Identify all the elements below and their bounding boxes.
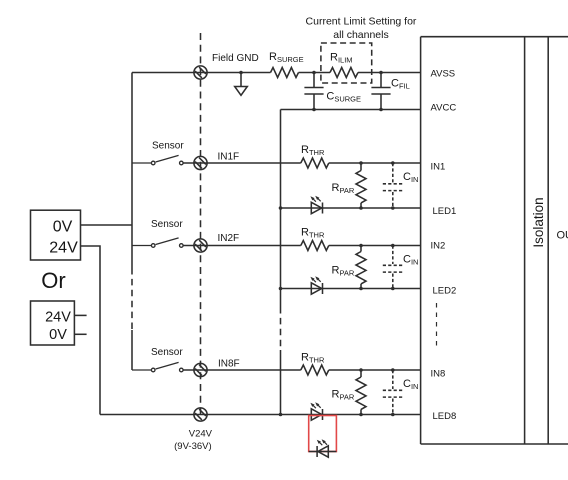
svg-text:Sensor: Sensor <box>151 347 183 358</box>
svg-text:RPAR: RPAR <box>332 182 355 195</box>
svg-text:RTHR: RTHR <box>301 352 325 365</box>
svg-text:LED8: LED8 <box>433 411 457 422</box>
svg-text:Current Limit Setting for: Current Limit Setting for <box>306 16 417 28</box>
svg-text:LED2: LED2 <box>433 285 457 296</box>
svg-text:CIN: CIN <box>403 254 418 267</box>
svg-text:LED1: LED1 <box>433 206 457 217</box>
svg-text:IN2F: IN2F <box>218 233 240 244</box>
svg-text:all channels: all channels <box>333 29 388 41</box>
svg-text:Isolation: Isolation <box>531 197 546 247</box>
svg-text:IN1F: IN1F <box>218 152 240 163</box>
svg-text:0V: 0V <box>53 219 73 236</box>
svg-text:IN1: IN1 <box>431 161 446 172</box>
svg-text:Sensor: Sensor <box>151 219 183 230</box>
svg-text:CSURGE: CSURGE <box>326 91 361 104</box>
svg-text:CIN: CIN <box>403 171 418 184</box>
svg-text:(9V-36V): (9V-36V) <box>174 441 212 452</box>
svg-text:IN2: IN2 <box>431 240 446 251</box>
svg-text:0V: 0V <box>49 327 67 343</box>
svg-text:24V: 24V <box>45 309 71 325</box>
svg-text:IN8F: IN8F <box>218 359 240 370</box>
svg-text:Or: Or <box>41 268 65 293</box>
svg-text:RPAR: RPAR <box>332 389 355 402</box>
svg-text:RTHR: RTHR <box>301 144 325 157</box>
svg-text:RILIM: RILIM <box>330 52 353 65</box>
svg-text:CIN: CIN <box>403 378 418 391</box>
svg-text:RTHR: RTHR <box>301 227 325 240</box>
svg-text:IN8: IN8 <box>431 368 446 379</box>
svg-text:AVCC: AVCC <box>431 103 457 114</box>
svg-text:OUT: OUT <box>557 230 568 242</box>
svg-text:Sensor: Sensor <box>152 141 184 152</box>
svg-text:Field GND: Field GND <box>212 53 259 64</box>
svg-text:AVSS: AVSS <box>431 68 456 79</box>
svg-text:24V: 24V <box>49 240 78 257</box>
svg-text:RPAR: RPAR <box>332 265 355 278</box>
svg-text:CFIL: CFIL <box>391 78 410 91</box>
svg-text:V24V: V24V <box>189 428 213 439</box>
svg-text:RSURGE: RSURGE <box>269 51 304 64</box>
